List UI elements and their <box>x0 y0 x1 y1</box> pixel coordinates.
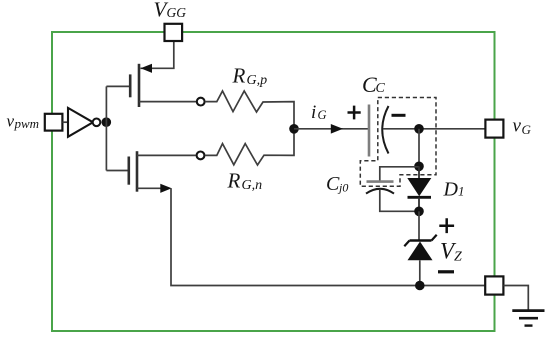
resistor RGn terminal circle <box>197 152 205 160</box>
wire: gate bus vertical <box>105 86 107 170</box>
CC minus sign <box>392 114 406 117</box>
svg-text:D: D <box>443 178 459 200</box>
transistor Q1 drain lead <box>139 101 196 103</box>
inverter bubble <box>93 119 101 127</box>
svg-text:G,n: G,n <box>242 178 263 193</box>
zener minus sign <box>438 270 454 273</box>
CC plus sign <box>348 106 361 120</box>
transistor Q2 drain lead <box>137 154 196 156</box>
svg-text:C: C <box>376 81 386 96</box>
wire: node B to CC left plate <box>294 128 369 130</box>
svg-text:R: R <box>227 169 241 193</box>
wire: vpwm pad to inverter <box>62 121 68 123</box>
iG current arrow <box>331 124 343 134</box>
svg-text:C: C <box>326 173 340 195</box>
diode D1 <box>418 166 420 178</box>
svg-text:R: R <box>232 64 246 88</box>
node D (diode anode junction) <box>414 162 424 172</box>
svg-text:1: 1 <box>458 184 465 199</box>
transistor Q2 source arrow <box>160 184 171 193</box>
wire: NMOS source down and along bottom <box>171 188 485 285</box>
ground <box>512 309 544 312</box>
terminal pad ground-return <box>485 276 503 294</box>
transistor Q2 channel bar <box>136 151 139 192</box>
wire: CC right plate to vG pad <box>383 128 485 130</box>
svg-text:v: v <box>513 116 522 137</box>
wire: zener to bottom rail <box>419 260 421 285</box>
svg-text:G: G <box>522 122 532 137</box>
svg-text:GG: GG <box>167 5 187 20</box>
svg-text:j0: j0 <box>337 181 348 195</box>
wire: VGG pad to PMOS source <box>141 41 174 68</box>
node B (resistor junction) <box>289 124 299 134</box>
svg-text:v: v <box>7 112 15 131</box>
svg-text:i: i <box>311 102 316 123</box>
capacitor CC right plate (curved) <box>382 106 388 154</box>
svg-text:pwm: pwm <box>14 116 40 131</box>
transistor Q1 channel bar <box>138 64 141 107</box>
svg-text:Z: Z <box>454 250 462 265</box>
dashed diode-model box <box>360 98 436 187</box>
wire: PMOS gate lead <box>106 85 129 87</box>
transistor Q2 source lead <box>137 187 162 189</box>
capacitor Cj0 top plate <box>367 180 394 183</box>
resistor RGn zigzag <box>205 133 294 165</box>
svg-text:G,p: G,p <box>247 73 268 88</box>
wire: node D to Cj0 top <box>380 167 419 182</box>
svg-text:G: G <box>318 108 327 122</box>
wire: node C down to node D <box>418 129 420 167</box>
wire: NMOS gate lead <box>106 170 128 172</box>
module boundary (green box) <box>52 32 495 331</box>
transistor Q1 source arrow <box>141 64 152 73</box>
node F (bottom rail junction) <box>415 281 425 291</box>
zener diode VZ <box>410 239 432 242</box>
wire: pad to ground symbol <box>503 286 528 311</box>
resistor RGp terminal circle <box>197 98 205 106</box>
wire: node E to zener <box>418 211 420 240</box>
wire: Cj0 bottom to node E <box>380 189 419 211</box>
capacitor CC left plate <box>368 105 371 157</box>
zener plus sign <box>439 218 454 233</box>
transistor Q1 (PMOS) gate bar <box>129 74 132 97</box>
terminal pad vpwm <box>45 114 63 131</box>
node E (diode cathode junction) <box>414 207 424 217</box>
terminal pad vG <box>485 120 503 138</box>
capacitor Cj0 bottom plate (curved) <box>366 189 394 194</box>
resistor RGp zigzag <box>205 91 294 125</box>
inverter U1 <box>68 108 93 137</box>
transistor Q2 (NMOS) gate bar <box>128 157 131 185</box>
node A (inverter output junction) <box>102 117 112 127</box>
terminal pad VGG <box>165 24 183 41</box>
node C (output node) <box>414 124 424 134</box>
